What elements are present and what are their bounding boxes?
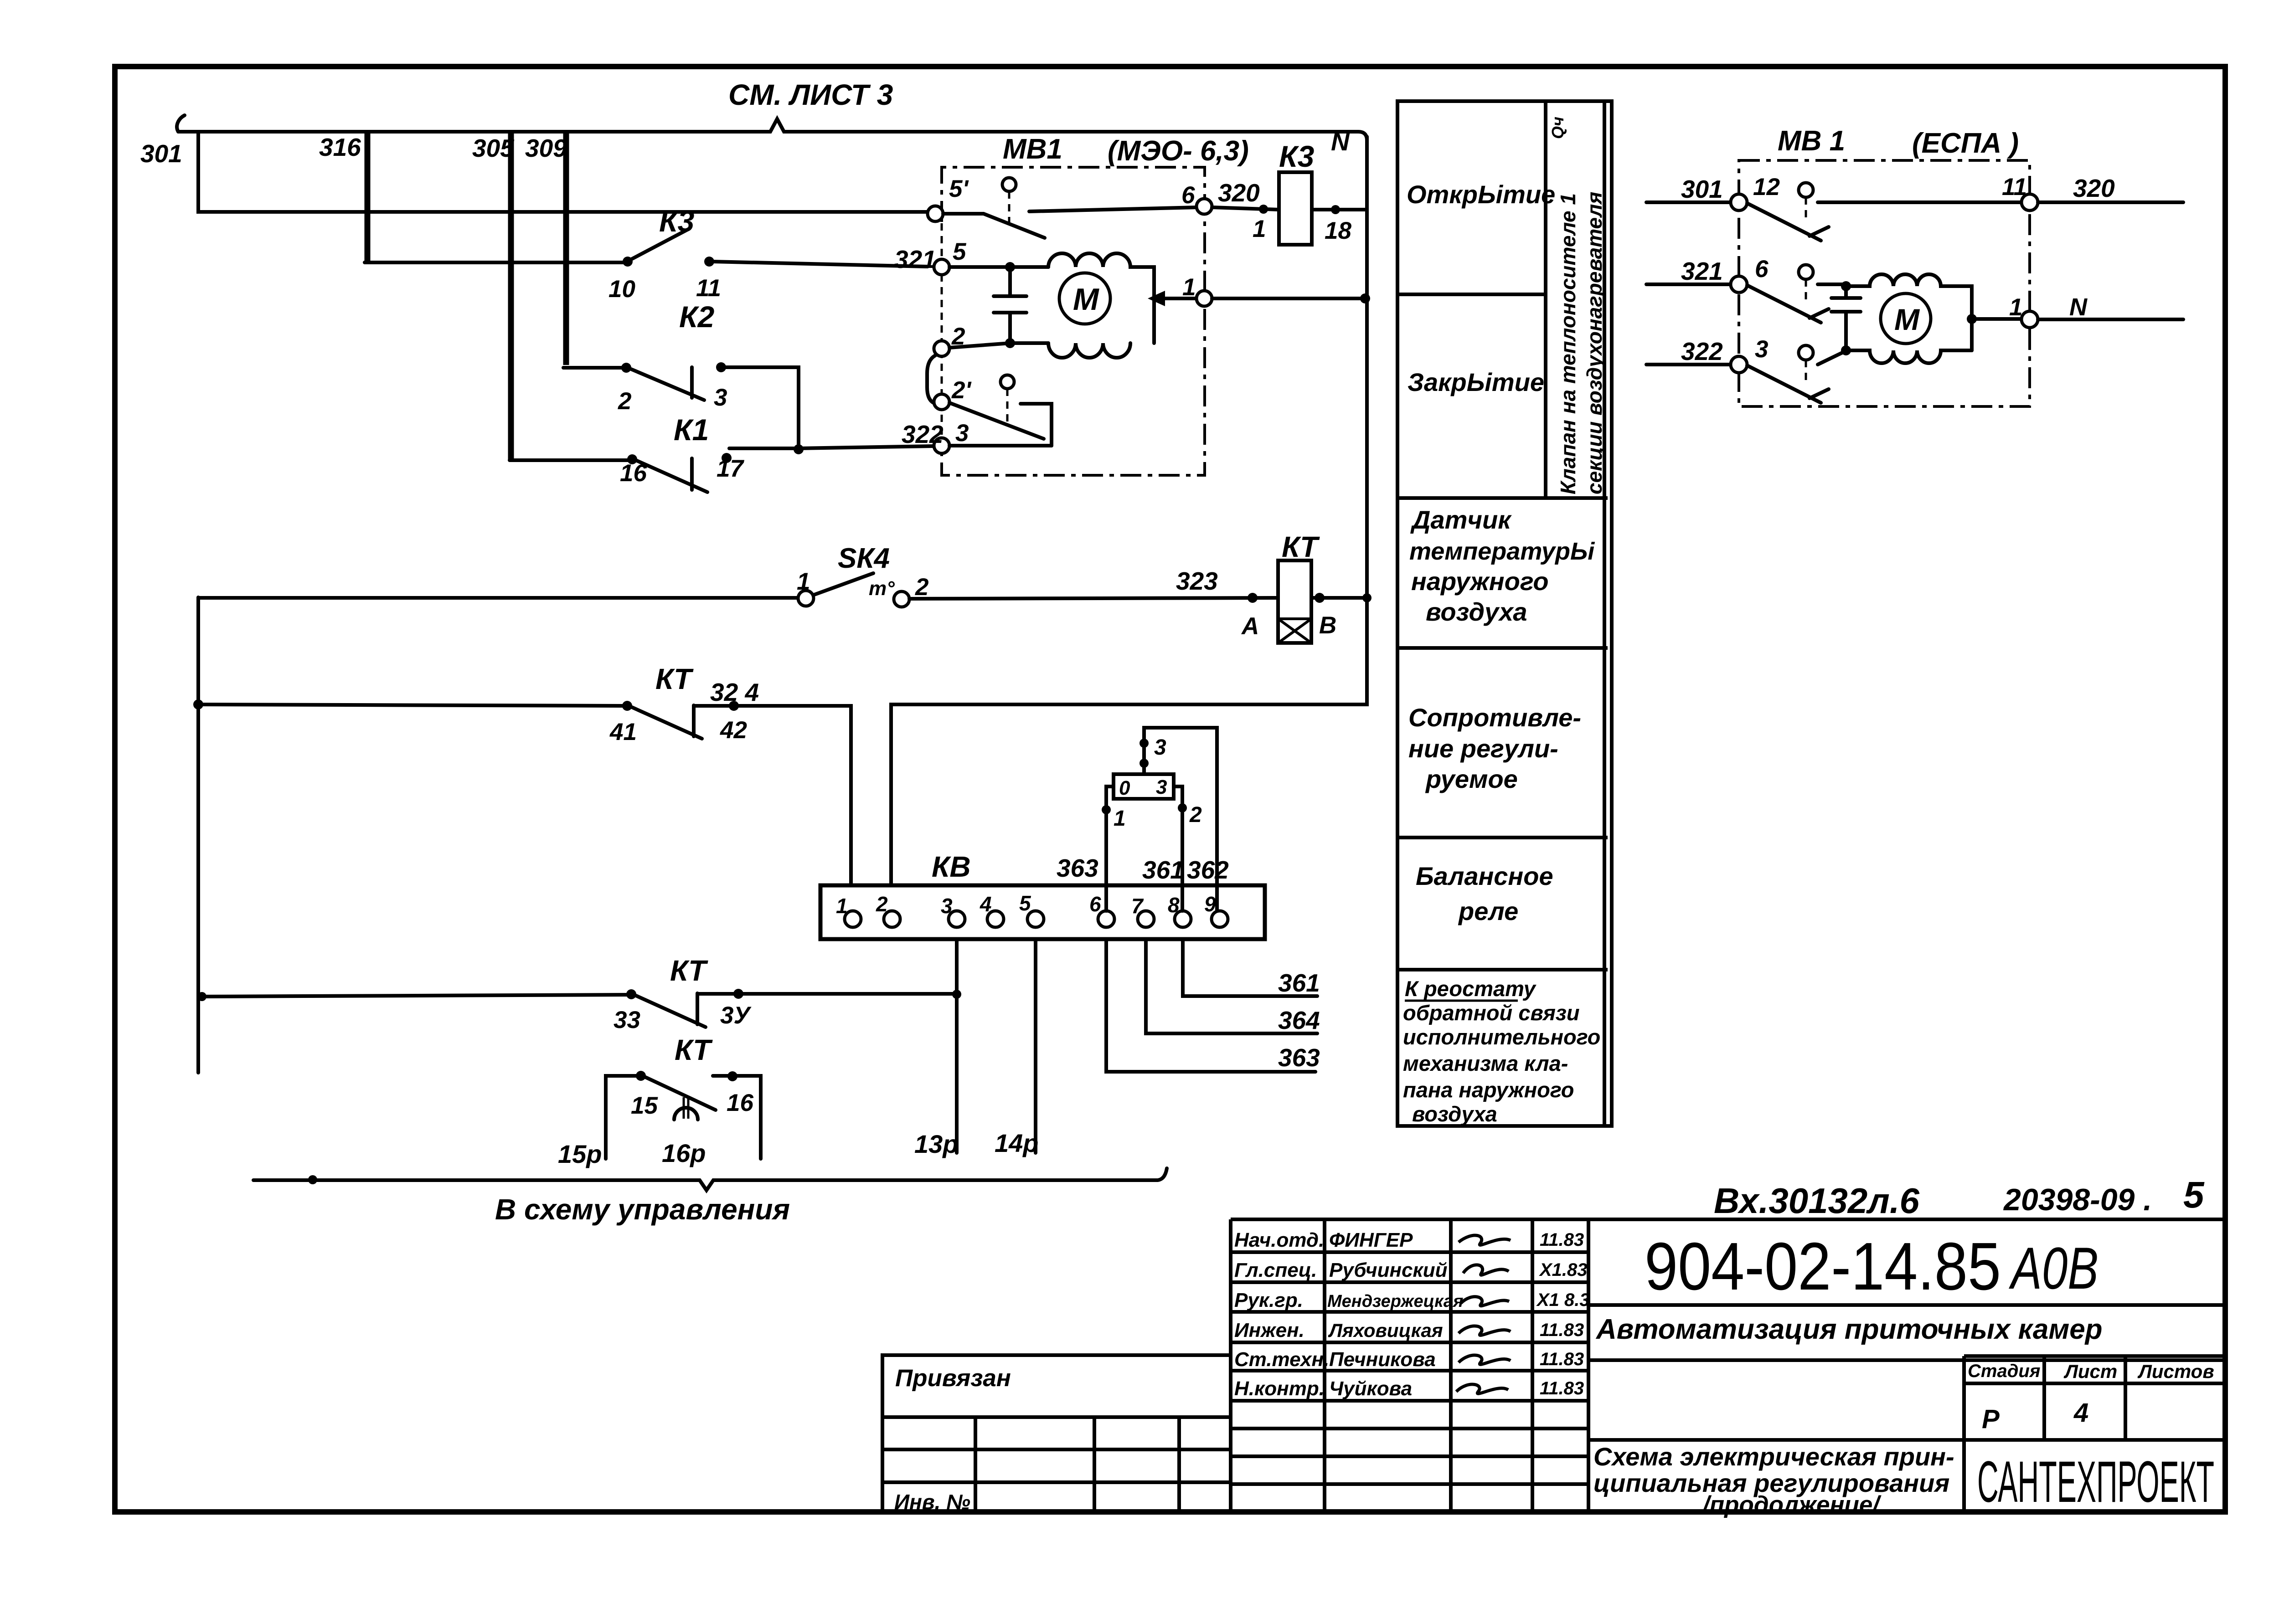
limit switch actuator head at 5'	[1002, 178, 1016, 228]
temperature switch SK4	[798, 573, 909, 607]
svg-text:Печникова: Печникова	[1329, 1348, 1436, 1371]
pin 3 label	[955, 420, 969, 447]
svg-text:К3: К3	[659, 204, 694, 238]
net 13p label	[914, 1130, 959, 1158]
wire 324 row left segment	[198, 704, 624, 706]
limit switch actuator head at 6	[1799, 265, 1813, 301]
wire KT coil to N bus	[1311, 596, 1367, 600]
legend vertical caption superscript	[1548, 117, 1567, 139]
pin 6 label	[1755, 256, 1769, 283]
contact KT (41-42)	[622, 701, 739, 739]
contact designator KT	[675, 1033, 713, 1066]
svg-text:2: 2	[915, 574, 928, 601]
node 305 label	[472, 134, 515, 162]
svg-text:(МЭО- 6,3): (МЭО- 6,3)	[1108, 135, 1249, 167]
wire motor to terminal 1 with arrow	[1148, 291, 1196, 306]
svg-text:8: 8	[1168, 893, 1180, 917]
svg-text:2': 2'	[951, 377, 972, 404]
svg-text:Ляховицкая: Ляховицкая	[1328, 1320, 1443, 1341]
contact designator KT	[670, 954, 708, 987]
KV pin 6	[1089, 892, 1114, 927]
svg-text:Привязан: Привязан	[895, 1365, 1011, 1392]
motor M1 circle	[1059, 273, 1110, 324]
svg-text:18: 18	[1325, 217, 1351, 244]
node 316 label	[319, 133, 361, 161]
signature row 5: St.tekhn. Pechnikova	[1234, 1348, 1584, 1371]
slider pin 3 label	[1154, 735, 1166, 760]
signature row 4: Inzhen. Lyakhovitskaya	[1234, 1319, 1584, 1341]
resistor left lead to KV pin 6	[1106, 786, 1114, 911]
limit switch contact at 6	[1747, 284, 1846, 323]
KV pin 8	[1168, 893, 1191, 927]
svg-text:М: М	[1894, 303, 1920, 336]
signature row 3: Ruk.gr. Mendzerzhetskaya	[1234, 1289, 1590, 1311]
svg-text:Qч: Qч	[1548, 117, 1567, 139]
wire KV pin 6 to net 363	[1106, 940, 1315, 1072]
svg-text:3У: 3У	[720, 1002, 752, 1029]
wire net 321 to terminal 6	[1646, 283, 1731, 286]
pin dot on left lead	[1102, 805, 1111, 814]
svg-text:15: 15	[631, 1092, 658, 1119]
svg-text:17: 17	[717, 455, 744, 482]
svg-text:/продолжение/: /продолжение/	[1702, 1491, 1882, 1518]
adjustable resistor R	[1114, 774, 1174, 799]
pin 1 label	[1182, 274, 1196, 301]
pin 2 label	[951, 323, 965, 350]
project title: Avtomatizatsiya pritochnykh kamer	[1588, 1314, 2225, 1360]
svg-text:А: А	[1241, 613, 1259, 640]
svg-text:КТ: КТ	[655, 663, 694, 695]
KV pin 7	[1131, 894, 1154, 927]
svg-text:Лист: Лист	[2063, 1361, 2117, 1382]
legend cell: balance relay caption	[1416, 862, 1553, 925]
junction on left feeder at 324 row	[193, 699, 203, 709]
terminal 11 of ESPA	[2021, 194, 2038, 211]
wire 324 row to KV pin 1	[694, 706, 851, 911]
wire SK4 row left segment	[198, 596, 799, 600]
junction A	[1248, 593, 1258, 603]
wire motor to terminal 1 of ESPA	[1972, 317, 2021, 321]
pin 2' label	[951, 377, 972, 404]
terminal 1 of MB1	[1196, 291, 1212, 306]
relay coil K3	[1279, 172, 1312, 245]
terminal 2 of MB1	[934, 341, 949, 356]
pin 16 label	[727, 1090, 753, 1116]
svg-text:9: 9	[1204, 892, 1216, 916]
net 321 label	[894, 245, 936, 273]
relay contact designator K1	[674, 413, 709, 447]
node 309 label	[525, 134, 567, 162]
svg-text:М: М	[1073, 282, 1099, 317]
net 301 label	[1681, 175, 1723, 203]
svg-text:6: 6	[1089, 892, 1101, 916]
svg-text:т°: т°	[869, 577, 895, 600]
net 16p label	[662, 1139, 706, 1167]
motor bottom winding	[1048, 343, 1130, 358]
svg-text:321: 321	[1681, 257, 1723, 285]
svg-text:3: 3	[955, 420, 969, 447]
svg-text:КТ: КТ	[670, 954, 708, 987]
legend cell: Zakrytie	[1408, 368, 1544, 396]
junction KT row on N bus	[1362, 593, 1372, 602]
svg-text:Ст.техн.: Ст.техн.	[1234, 1348, 1329, 1371]
svg-text:316: 316	[319, 133, 361, 161]
svg-text:322: 322	[1681, 337, 1723, 365]
resistor slider wire to KV pin 9	[1144, 728, 1217, 911]
wire 309 vertical (thick)	[563, 133, 569, 365]
pin 11 label	[2002, 174, 2027, 200]
junction on left feeder at 33 row	[197, 992, 206, 1001]
KV pin 9	[1204, 892, 1228, 927]
svg-text:механизма кла-: механизма кла-	[1403, 1051, 1568, 1075]
svg-text:6: 6	[1755, 256, 1769, 283]
net 324 label	[710, 678, 759, 706]
pin 15 label	[631, 1092, 658, 1119]
svg-text:Х1.83: Х1.83	[1539, 1260, 1588, 1280]
pin 17 label	[717, 455, 744, 482]
contact K2 (2-3)	[621, 362, 726, 400]
terminal B label	[1319, 612, 1336, 639]
svg-text:Стадия: Стадия	[1968, 1361, 2040, 1381]
terminal 5' of MB1	[928, 206, 943, 221]
svg-text:3: 3	[941, 894, 953, 918]
junction bottom winding node	[1841, 345, 1851, 355]
wire K2 row from 309 to contact K2	[563, 366, 624, 370]
svg-text:320: 320	[1218, 179, 1260, 207]
svg-text:САНТЕХПРОЕКТ: САНТЕХПРОЕКТ	[1977, 1449, 2214, 1515]
svg-text:Балансное: Балансное	[1416, 862, 1553, 890]
wire 33 row left segment	[202, 995, 628, 997]
svg-text:воздуха: воздуха	[1412, 1102, 1497, 1126]
svg-text:пана наружного: пана наружного	[1403, 1078, 1574, 1102]
thermal actuator mark	[869, 577, 895, 600]
svg-text:Рук.гр.: Рук.гр.	[1234, 1289, 1303, 1311]
wire terminal 3 to fixed contact of 2'	[949, 444, 1052, 447]
svg-text:ние регули-: ние регули-	[1408, 734, 1558, 763]
pin 6 label	[1181, 182, 1195, 209]
svg-text:Автоматизация приточных каме: Автоматизация приточных камер	[1595, 1314, 2103, 1345]
net 361 label above block	[1142, 856, 1184, 884]
net 320 label	[1218, 179, 1260, 207]
svg-text:16: 16	[620, 460, 647, 487]
svg-text:14р: 14р	[995, 1129, 1039, 1157]
svg-text:1: 1	[1253, 216, 1266, 242]
svg-text:20398-09 .: 20398-09 .	[2003, 1182, 2152, 1217]
contact KT (15-16) with time delay	[606, 1071, 761, 1159]
actuator MB1 (ESPA) dash-dot enclosure	[1739, 160, 2030, 406]
wire coil K3 to N bus	[1312, 208, 1367, 211]
terminal 5 of MB1	[934, 259, 949, 275]
svg-text:Инв. №: Инв. №	[894, 1490, 970, 1514]
svg-text:301: 301	[140, 139, 182, 168]
svg-text:2: 2	[876, 892, 888, 916]
svg-text:Клапан на теплоносителе 1: Клапан на теплоносителе 1	[1556, 193, 1580, 494]
svg-text:11.83: 11.83	[1540, 1378, 1584, 1398]
handwritten inventory mark Vh.30132l.6	[1714, 1181, 1919, 1221]
legend cell: temperature sensor caption	[1409, 505, 1595, 626]
resistor right lead to KV pin 8	[1174, 786, 1182, 911]
wire from contact K1 to terminal 3 (net 322)	[729, 446, 934, 448]
svg-text:Гл.спец.: Гл.спец.	[1234, 1259, 1317, 1281]
svg-text:К реостату: К реостату	[1405, 976, 1537, 1001]
svg-text:16р: 16р	[662, 1139, 706, 1167]
wire terminal 6 to coil K3	[1212, 207, 1279, 210]
svg-text:4: 4	[980, 892, 992, 916]
svg-text:16: 16	[727, 1090, 753, 1116]
svg-text:SК4: SК4	[838, 543, 890, 574]
svg-text:секции воздухонагревателя: секции воздухонагревателя	[1583, 192, 1606, 494]
relay coil KT (thermal)	[1278, 560, 1311, 643]
svg-text:3: 3	[714, 384, 727, 411]
pin 5' label	[949, 175, 969, 202]
drawing title: Skhema elektricheskaya printsipialnaya	[1588, 1440, 1964, 1518]
lead pin 1 label	[1114, 807, 1126, 831]
pin 34 label	[720, 1002, 752, 1029]
net N label	[1331, 127, 1350, 156]
actuator designator MB1 (ESPA)	[1778, 125, 1845, 157]
jumper terminal 2 to 2'	[927, 355, 935, 403]
relay coil designator KT	[1282, 530, 1320, 563]
net 363 label above block	[1057, 854, 1098, 882]
limit switch contact at 5'	[943, 207, 1198, 238]
slider pin dots	[1139, 739, 1149, 768]
svg-text:1: 1	[1182, 274, 1196, 301]
svg-text:исполнительного: исполнительного	[1403, 1025, 1600, 1049]
svg-text:Листов: Листов	[2137, 1361, 2214, 1382]
svg-text:Датчик: Датчик	[1410, 505, 1512, 534]
pin 18 label of coil K3	[1325, 217, 1351, 244]
handwritten sheet number 5	[2183, 1174, 2205, 1216]
document number 904-02-14.85 AOV	[1588, 1229, 2225, 1305]
SK4 designator	[838, 543, 890, 574]
svg-text:12: 12	[1753, 174, 1780, 200]
svg-text:4: 4	[2073, 1398, 2088, 1428]
svg-text:Инжен.: Инжен.	[1234, 1319, 1304, 1341]
svg-text:N: N	[1331, 127, 1350, 156]
svg-text:32 4: 32 4	[710, 678, 759, 706]
svg-text:5: 5	[953, 238, 967, 265]
svg-text:309: 309	[525, 134, 567, 162]
svg-text:МВ1: МВ1	[1003, 134, 1062, 165]
signature row 2: Gl.spets. Rubchinskiy	[1234, 1259, 1588, 1281]
wire KV pin 7 to net 364	[1146, 940, 1317, 1033]
svg-text:11.83: 11.83	[1540, 1230, 1584, 1250]
KV pin 3	[941, 894, 965, 927]
junction top winding node	[1841, 281, 1851, 291]
actuator type (ESPA)	[1912, 128, 2019, 159]
legend cell: adjustable resistance caption	[1408, 703, 1581, 793]
ESPA motor M circle	[1881, 293, 1931, 344]
net 363 label	[1278, 1043, 1320, 1072]
pin 5 label	[953, 238, 967, 265]
left feeder vertical wire	[196, 597, 200, 1073]
svg-text:6: 6	[1181, 182, 1195, 209]
svg-text:1: 1	[836, 894, 848, 918]
svg-text:КТ: КТ	[1282, 530, 1320, 563]
svg-text:МВ 1: МВ 1	[1778, 125, 1845, 157]
svg-text:КВ: КВ	[932, 850, 971, 883]
wire net 301 to terminal 12	[1646, 200, 1731, 204]
svg-text:0: 0	[1119, 777, 1130, 799]
handwritten code 20398-09	[2003, 1182, 2152, 1217]
lead pin 2 label	[1189, 803, 1202, 827]
pin 1 label of SK4	[797, 568, 810, 595]
terminal 3 of ESPA	[1731, 356, 1747, 373]
svg-text:7: 7	[1131, 894, 1144, 918]
limit switch contact at 2'	[949, 403, 1052, 446]
svg-text:воздуха: воздуха	[1426, 597, 1527, 626]
signature row 1: Nach.otd. Finger	[1234, 1229, 1584, 1251]
svg-text:323: 323	[1176, 567, 1218, 595]
svg-text:3: 3	[1755, 336, 1768, 363]
svg-text:наружного: наружного	[1411, 567, 1549, 596]
svg-text:321: 321	[894, 245, 936, 273]
svg-text:363: 363	[1278, 1043, 1320, 1072]
svg-text:301: 301	[1681, 175, 1723, 203]
net 361 label	[1278, 969, 1320, 997]
svg-text:3: 3	[1154, 735, 1166, 760]
relay contact designator K3	[659, 204, 694, 238]
wire branch from 301 down to row of terminal 5'	[198, 132, 928, 212]
terminal block KV	[820, 885, 1265, 939]
pin 2 label of SK4	[915, 574, 928, 601]
wire K3 row from 316 to contact K3	[365, 261, 625, 264]
actuator designator MB1	[1003, 134, 1062, 165]
net 364 label	[1278, 1006, 1320, 1034]
pin 42 label	[720, 717, 747, 744]
net N label	[2069, 293, 2088, 321]
svg-text:реле: реле	[1458, 897, 1518, 925]
svg-text:361: 361	[1142, 856, 1184, 884]
wire terminal 1 to N bus	[1212, 297, 1367, 300]
pin 16 label	[620, 460, 647, 487]
block designator KV	[932, 850, 971, 883]
limit switch actuator head at 12	[1799, 183, 1813, 219]
contact KT (33-34)	[626, 989, 743, 1027]
svg-text:Мендзержецкая: Мендзержецкая	[1327, 1292, 1463, 1311]
svg-text:Схема электрическая прин-: Схема электрическая прин-	[1593, 1442, 1954, 1471]
title block outer box	[1231, 1219, 2225, 1512]
junction B	[1315, 593, 1325, 603]
svg-text:305: 305	[472, 134, 515, 162]
svg-text:11.83: 11.83	[1540, 1320, 1584, 1340]
signature table grid	[1231, 1219, 1588, 1512]
svg-text:Сопротивле-: Сопротивле-	[1408, 703, 1581, 732]
contact designator KT	[655, 663, 694, 695]
pin 12 label	[1753, 174, 1780, 200]
svg-text:(ЕСПА ): (ЕСПА )	[1912, 128, 2019, 159]
svg-text:К3: К3	[1279, 139, 1314, 173]
wire net N from terminal 1	[2038, 318, 2183, 321]
net 15p label	[558, 1140, 602, 1168]
pin 41 label	[609, 719, 637, 745]
svg-text:В схему управления: В схему управления	[495, 1193, 790, 1226]
terminal A label	[1241, 613, 1259, 640]
svg-text:11: 11	[696, 275, 721, 302]
capacitor C of motor	[994, 271, 1026, 339]
time delay symbol	[674, 1097, 698, 1120]
net 322 label	[902, 420, 944, 448]
svg-text:ЗакрЬітие: ЗакрЬітие	[1408, 368, 1544, 396]
svg-text:К1: К1	[674, 413, 709, 447]
pin 1 label of coil K3	[1253, 216, 1266, 242]
KV pin 2	[876, 892, 900, 927]
svg-text:363: 363	[1057, 854, 1098, 882]
wire bus 301 (top horizontal with brace bump)	[177, 115, 1367, 140]
relay coil designator K3	[1279, 139, 1314, 173]
N bus vertical and return to KV pin 2	[891, 137, 1367, 911]
pin 11 label	[696, 275, 721, 302]
wire 316 vertical (thick)	[365, 133, 371, 262]
limit switch actuator head at 3	[1799, 345, 1813, 382]
pin 33 label	[614, 1007, 640, 1033]
organization name SANTEKHPROEKT	[1977, 1449, 2214, 1515]
svg-text:Рубчинский: Рубчинский	[1329, 1259, 1448, 1281]
svg-text:1: 1	[2009, 294, 2022, 321]
wire KV pin 5 down to 14p	[1034, 940, 1037, 1153]
svg-text:ОткрЬітие: ОткрЬітие	[1407, 180, 1555, 209]
pin dot at coil K3 output	[1331, 205, 1340, 214]
terminal 6 of ESPA	[1731, 276, 1747, 293]
node 301 label	[140, 139, 182, 168]
limit switch contact at 3	[1747, 351, 1846, 403]
svg-text:5: 5	[1019, 891, 1031, 915]
wire K1 row from 305 to contact K1	[510, 458, 630, 462]
net 321 label	[1681, 257, 1723, 285]
svg-text:В: В	[1319, 612, 1336, 639]
svg-text:11: 11	[2002, 174, 2027, 200]
svg-text:ФИНГЕР: ФИНГЕР	[1329, 1229, 1413, 1251]
signature row 6: N.kontr. Chuykova	[1234, 1377, 1584, 1400]
wire net 320 from terminal 11	[2038, 200, 2183, 204]
junction on KV pin3 wire	[952, 990, 961, 999]
terminal 12 of ESPA	[1731, 194, 1747, 211]
svg-text:5': 5'	[949, 175, 969, 202]
svg-text:41: 41	[609, 719, 637, 745]
svg-text:322: 322	[902, 420, 944, 448]
to control circuit caption	[495, 1193, 790, 1226]
legend vertical caption line 2	[1583, 192, 1606, 494]
stage/sheet mini table	[1964, 1356, 2225, 1440]
svg-text:320: 320	[2073, 174, 2115, 202]
terminal 2' of MB1	[934, 394, 949, 410]
svg-text:обратной связи: обратной связи	[1403, 1001, 1580, 1025]
svg-text:5: 5	[2183, 1174, 2205, 1216]
svg-text:Чуйкова: Чуйкова	[1329, 1377, 1412, 1400]
junction motor output	[1967, 314, 1977, 324]
wire net 322 to terminal 3	[1646, 363, 1731, 366]
svg-text:2: 2	[1189, 803, 1202, 827]
svg-text:температурЬі: температурЬі	[1409, 538, 1595, 565]
net 362 label above block	[1187, 856, 1229, 884]
svg-text:1: 1	[1114, 807, 1126, 831]
pin dot at coil K3 input	[1259, 205, 1268, 214]
svg-text:N: N	[2069, 293, 2088, 321]
legend table column	[1397, 101, 1612, 1126]
legend vertical caption line 1	[1556, 193, 1580, 494]
contact K1 (16-17)	[627, 453, 732, 492]
ESPA motor bottom winding	[1846, 350, 1972, 363]
KV pin 5	[1019, 891, 1044, 927]
net 323 label	[1176, 567, 1218, 595]
svg-text:362: 362	[1187, 856, 1229, 884]
svg-text:3: 3	[1156, 776, 1167, 798]
mechanical link dash-dot between terminals	[941, 223, 943, 437]
note: see sheet 3 label	[728, 78, 893, 111]
legend cell: to rheostat caption	[1403, 976, 1600, 1126]
junction cap top	[1005, 262, 1015, 272]
svg-text:42: 42	[720, 717, 747, 744]
